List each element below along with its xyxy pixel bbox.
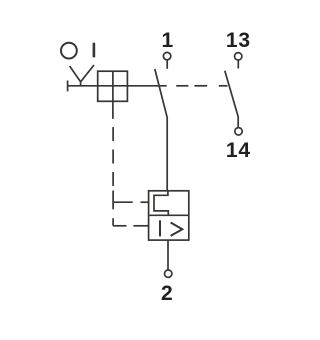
terminal 13 lead wire bbox=[237, 61, 239, 69]
trip unit divider bbox=[149, 214, 189, 216]
terminal 2 lead wire bbox=[167, 240, 169, 270]
trip unit box bbox=[149, 191, 189, 240]
terminal 1 lead wire bbox=[166, 60, 168, 68]
I (on) indicator bbox=[93, 43, 96, 58]
actuator operating rod (wire) bbox=[68, 85, 167, 87]
magnetic overcurrent release I> symbol bbox=[160, 220, 182, 236]
terminal 2 circle bbox=[165, 270, 172, 277]
mechanism cross vertical wire bbox=[112, 71, 114, 119]
terminal 1 circle bbox=[163, 52, 170, 59]
main contact blade + wire to trip unit bbox=[155, 69, 167, 191]
O (off) indicator bbox=[61, 43, 77, 59]
auxiliary contact blade bbox=[225, 71, 238, 127]
svg-text:13: 13 bbox=[226, 29, 251, 52]
svg-text:1: 1 bbox=[161, 29, 173, 52]
mechanical linkage dashed horizontal (rod to aux contact) bbox=[176, 85, 227, 87]
svg-text:14: 14 bbox=[226, 139, 251, 162]
svg-text:2: 2 bbox=[161, 282, 173, 305]
thermal overload release symbol bbox=[154, 191, 168, 216]
mechanical linkage dashed vertical (mechanism to trip unit) bbox=[112, 127, 114, 226]
terminal 13 circle bbox=[235, 53, 242, 60]
actuator end stop bbox=[67, 81, 69, 92]
toggle actuator lever (V) bbox=[70, 65, 94, 86]
linkage dashed branch to magnetic release bbox=[113, 225, 149, 227]
operating mechanism box bbox=[98, 71, 128, 101]
terminal 14 circle bbox=[235, 128, 242, 135]
linkage dashed branch to thermal release bbox=[113, 201, 149, 203]
